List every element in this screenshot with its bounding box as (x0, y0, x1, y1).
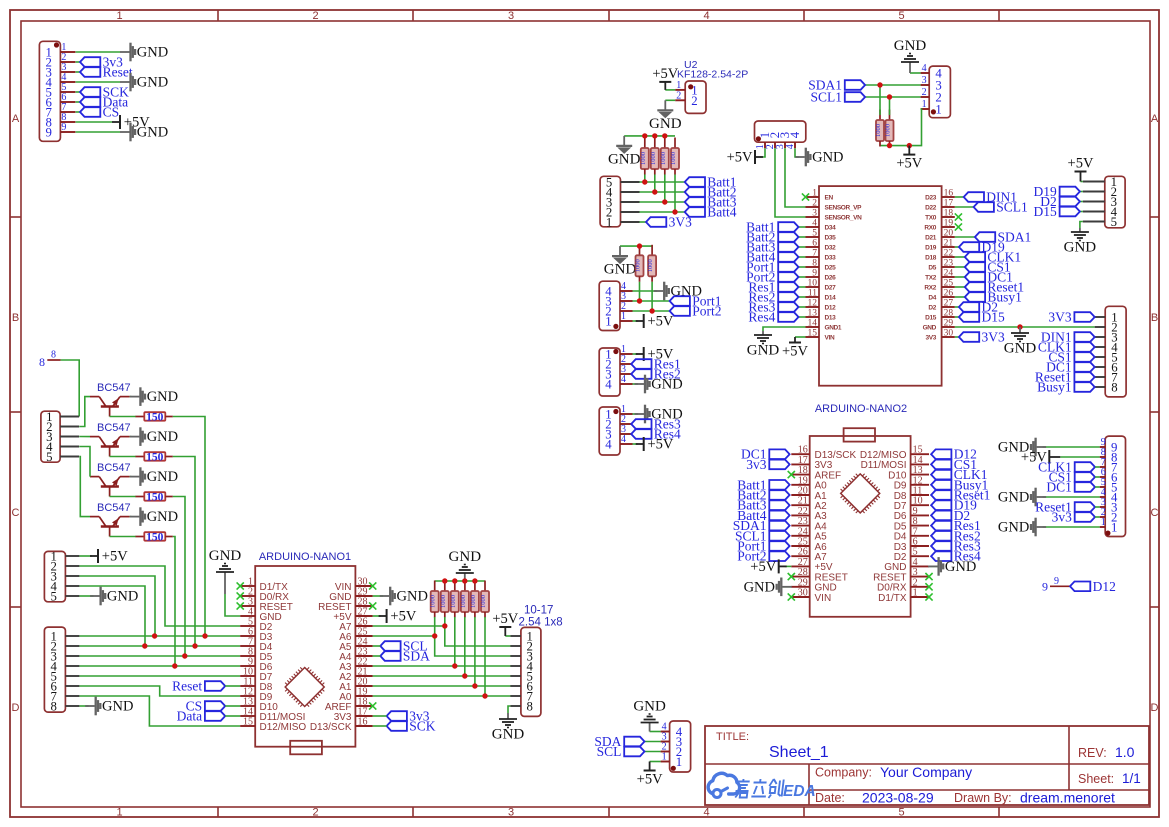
junction D6/R4 (172, 663, 177, 668)
port pin 9 (1042, 576, 1070, 594)
svg-text:4: 4 (788, 131, 802, 138)
svg-text:Your Company: Your Company (880, 764, 972, 780)
net flag Reset (80, 65, 133, 80)
wire J11.4 to GND (795, 148, 799, 157)
wire J13.2 to D19 (1080, 191, 1083, 193)
svg-text:BC547: BC547 (97, 422, 131, 434)
wire U1 D5 to CS1 (955, 266, 965, 268)
+5V at J6.1 (637, 762, 663, 788)
connector J8 4-pin header (599, 281, 632, 331)
svg-text:+5V: +5V (648, 314, 674, 330)
svg-text:BC547: BC547 (97, 502, 131, 514)
resistor RN4-2 1000 (885, 110, 894, 147)
connector J4 8-pin header (44, 627, 79, 714)
net flag DC1 (741, 447, 790, 462)
svg-text:2: 2 (676, 90, 681, 101)
svg-text:GND: GND (651, 377, 682, 393)
svg-text:SENSOR_VN: SENSOR_VN (825, 215, 863, 222)
svg-text:+5V: +5V (1068, 156, 1094, 172)
net flag Res2 (631, 367, 681, 382)
svg-text:C: C (12, 507, 20, 519)
svg-text:GND: GND (147, 389, 178, 405)
svg-text:24: 24 (944, 269, 954, 279)
JLC EDA logo (708, 773, 816, 800)
svg-text:D25: D25 (825, 265, 837, 272)
svg-text:15: 15 (243, 717, 253, 728)
net flag Port2 (737, 549, 789, 564)
wire J4.8 to GND (79, 705, 88, 707)
svg-text:D15: D15 (982, 310, 1005, 325)
wire Data flag to NANO1 D11 (225, 715, 240, 717)
wire J11.2 to SENSOR_VN (775, 148, 806, 217)
svg-text:1: 1 (913, 588, 918, 599)
no-connect X U1 TX0 (955, 213, 962, 220)
svg-text:+5V: +5V (896, 156, 922, 172)
svg-text:2: 2 (312, 10, 318, 22)
resistor RN4-1 1000 (875, 110, 884, 147)
svg-text:150: 150 (146, 491, 164, 503)
svg-text:16: 16 (358, 717, 368, 728)
svg-text:D19: D19 (925, 245, 937, 252)
ground at J4.8 (85, 697, 133, 716)
wire Q2 emitter to GND (130, 436, 132, 438)
wire RN3 top bus (620, 245, 652, 247)
wire J6.3 to SDA flag (645, 741, 661, 743)
svg-text:BC547: BC547 (97, 462, 131, 474)
ground at RN2 bus (608, 136, 641, 168)
wire NANO1 A5 to SCL (373, 645, 381, 647)
wire J6.4 to GND (650, 731, 661, 733)
wire NANO1 A4 to SDA (373, 655, 381, 657)
svg-text:5: 5 (898, 10, 904, 22)
connector J10 4-pin header (599, 404, 632, 455)
svg-text:SCL1: SCL1 (810, 90, 842, 105)
net flag Reset1 (965, 280, 1024, 295)
wire U1 D18 to CLK1 (955, 256, 965, 258)
connector J1 9-pin header (39, 41, 75, 141)
wire J4.2 to NANO1 D4 (79, 645, 240, 647)
net flag Res3 (931, 539, 981, 554)
resistor R2 150 (135, 451, 173, 463)
+5V at J13.1 (1068, 156, 1094, 182)
net flag SCL (597, 744, 645, 759)
wire Q3 emitter to GND (130, 476, 132, 478)
ground at J15.1 (998, 518, 1046, 537)
svg-text:2: 2 (922, 87, 927, 98)
wire NANO2 +5V (785, 565, 792, 567)
svg-text:2: 2 (812, 199, 817, 209)
wire J11.3 to SENSOR_VP (785, 148, 806, 207)
svg-text:4: 4 (812, 219, 817, 229)
net flag Batt4 (685, 205, 737, 220)
wire J12.4 to GND (910, 72, 921, 74)
wire J9.4 to GND (633, 383, 639, 385)
ground at U1 GND1 (747, 331, 780, 359)
svg-text:+5V: +5V (782, 344, 808, 360)
no-connect X NANO1.28 (369, 602, 376, 609)
net flag D19 (931, 498, 977, 513)
wire J4.3 to NANO1 D5 (79, 655, 240, 657)
net flag Batt2 (737, 488, 789, 503)
ground at J6.4 (633, 699, 666, 732)
wire RN4-1 to SDA1 net (879, 85, 881, 115)
svg-text:1: 1 (605, 315, 611, 329)
junction RN2 bus (652, 133, 657, 138)
wire R4 to D6 net (173, 537, 175, 667)
svg-text:26: 26 (944, 289, 954, 299)
junction top bus (472, 578, 477, 583)
svg-text:10: 10 (808, 279, 818, 289)
wire J2.5 to Q4 base (79, 457, 90, 517)
svg-text:D22: D22 (925, 205, 937, 212)
ground at J1.9 (120, 123, 168, 142)
junction RN2 bus (662, 133, 667, 138)
svg-text:Sheet:: Sheet: (1078, 772, 1114, 786)
svg-text:D32: D32 (825, 245, 837, 252)
svg-text:BC547: BC547 (97, 382, 131, 394)
svg-text:3V3: 3V3 (1048, 310, 1071, 325)
svg-text:8: 8 (1111, 381, 1117, 395)
svg-text:3V3: 3V3 (982, 330, 1005, 345)
net flag Batt2 (685, 185, 737, 200)
net flag DC1 (1046, 360, 1095, 375)
no-connect X U1 RX0 (955, 223, 962, 230)
wire Port2 to U1 (799, 276, 806, 278)
net flag CLK1 (931, 467, 987, 482)
wire J1.8 to +5V (76, 121, 112, 123)
svg-text:D18: D18 (925, 255, 937, 262)
wire J12.2 to SCL1 (865, 96, 921, 98)
svg-text:4: 4 (621, 374, 626, 385)
svg-text:3: 3 (508, 807, 514, 819)
junction top bus (442, 578, 447, 583)
junction D5/R3 (182, 653, 187, 658)
svg-text:1000: 1000 (480, 595, 487, 608)
junction Batt2 (652, 189, 657, 194)
svg-text:1000: 1000 (670, 152, 677, 165)
svg-text:15: 15 (808, 329, 818, 339)
svg-text:+5V: +5V (727, 150, 753, 166)
wire RN6 to A0 net (484, 617, 486, 696)
svg-text:DC1: DC1 (1046, 480, 1072, 495)
net flag SDA (594, 734, 644, 749)
connector J7 5-pin header (600, 176, 639, 230)
svg-text:25: 25 (944, 279, 954, 289)
wire U2.1 to +5V (665, 89, 675, 91)
wire NANO1 D13 to SCK flag (373, 725, 387, 727)
svg-text:19: 19 (944, 219, 954, 229)
svg-text:D4: D4 (928, 295, 936, 302)
wire J12.1 +5V bus (880, 109, 922, 146)
wire J1.2 to 3v3 flag (76, 61, 80, 63)
svg-text:1000: 1000 (440, 595, 447, 608)
net flag 3v3 (80, 55, 123, 70)
title block (705, 726, 1149, 806)
svg-text:1000: 1000 (470, 595, 477, 608)
wire J4.1 to NANO1 D3 (79, 635, 240, 637)
+5V at NANO2.27 (750, 559, 786, 575)
ground at Q1 emitter (130, 387, 178, 406)
svg-text:GND: GND (137, 45, 168, 61)
svg-text:1: 1 (116, 807, 122, 819)
wire J15.5 (1095, 486, 1100, 488)
resistor RN4 1000 (460, 581, 469, 618)
resistor R4 150 (135, 531, 173, 543)
wire U1 GND1 (763, 327, 806, 331)
junction D3/R1 (202, 633, 207, 638)
svg-text:GND: GND (604, 262, 637, 278)
no-connect X U1 EN (802, 193, 809, 200)
wire U1 D23 to DIN1 (955, 196, 964, 198)
net flag SDA1 (733, 518, 790, 533)
svg-text:1: 1 (606, 216, 612, 230)
junction RN3 bus (637, 243, 642, 248)
svg-text:GND: GND (812, 150, 843, 166)
net flag CS1 (1048, 350, 1094, 365)
net flag Port2 (746, 270, 798, 285)
junction Batt1 (642, 179, 647, 184)
junction RN2 bus (642, 133, 647, 138)
transistor Q2 BC547 (90, 422, 131, 456)
svg-text:RX2: RX2 (924, 285, 936, 292)
wire J1.4 to GND (76, 81, 120, 83)
net flag Res3 (631, 417, 681, 432)
svg-text:8: 8 (51, 350, 56, 361)
net flag SCL1 (735, 528, 790, 543)
net flag DC1 (1046, 480, 1095, 495)
svg-text:4: 4 (922, 63, 927, 74)
transistor Q4 BC547 (90, 502, 131, 536)
+5V at J9.1 (636, 347, 674, 363)
ground on GND net (1004, 327, 1037, 357)
ground at NANO1.4 (209, 548, 242, 594)
svg-text:4: 4 (703, 10, 709, 22)
ground at J13.5 (1064, 228, 1097, 256)
net flag SDA1 (808, 78, 865, 93)
wire J1.3 to Reset flag (76, 71, 80, 73)
wire J4.6 to NANO1 D9 (79, 686, 240, 696)
wire J8.1 to +5V (633, 320, 638, 322)
svg-text:21: 21 (944, 239, 954, 249)
wire U1 D4 to Busy1 (955, 296, 965, 298)
net flag SDA1 (975, 230, 1031, 245)
junction SCL1 (887, 94, 892, 99)
junction top bus (462, 578, 467, 583)
connector J2 5-pin header (41, 410, 79, 464)
wire Reset flag to NANO1 D8 (225, 685, 240, 687)
junction Batt3 (662, 199, 667, 204)
wire J15.6 (1095, 476, 1100, 478)
ground at J12.4 (894, 38, 927, 73)
wire J3.1 to +5V (79, 555, 92, 557)
svg-text:D: D (12, 702, 20, 714)
svg-text:5: 5 (898, 807, 904, 819)
svg-text:B: B (12, 312, 19, 324)
svg-text:20: 20 (944, 229, 954, 239)
net flag SCK (387, 719, 436, 734)
svg-text:1: 1 (116, 10, 122, 22)
port pin 8 (39, 350, 61, 370)
svg-text:Data: Data (177, 709, 202, 724)
ground at NANO2.29 (744, 578, 792, 597)
wire J13.5 to GND (1080, 222, 1083, 229)
junction A3/RN3 (452, 663, 457, 668)
net flag D19 (1034, 184, 1080, 199)
wire U1 RX2 to Reset1 (955, 286, 965, 288)
connector J14 8-pin header (1095, 306, 1126, 397)
wire NANO1 A6 (373, 635, 435, 637)
wire RN2 to J5.2 (445, 617, 511, 646)
wire RN5 to A1 net (474, 617, 476, 686)
wire J6.1 to +5V (650, 761, 661, 763)
net flag Res3 (748, 300, 798, 315)
svg-text:3V3: 3V3 (925, 335, 936, 342)
no-connect X NANO2.2 (925, 583, 932, 590)
svg-text:+5V: +5V (637, 772, 663, 788)
svg-text:GND: GND (137, 125, 168, 141)
net flag Batt3 (746, 240, 798, 255)
junction top bus (452, 578, 457, 583)
wire J4.7 to NANO1 D12/MISO (79, 696, 240, 726)
ground at NANO1.29 (380, 587, 428, 606)
IC U1 ESP32 module (806, 186, 955, 386)
wire J4.5 to NANO1 D7 (79, 675, 240, 677)
wire RN4 to A2 net (464, 617, 466, 676)
net flag Res4 (931, 549, 981, 564)
wire U1 D2 flag (955, 306, 959, 308)
svg-text:1000: 1000 (885, 124, 892, 137)
net flag SCL (380, 639, 427, 654)
wire resistor pack top bus (435, 580, 485, 582)
svg-text:2.54 1x8: 2.54 1x8 (519, 617, 563, 629)
svg-text:2: 2 (312, 807, 318, 819)
svg-text:9: 9 (61, 122, 66, 133)
svg-text:4: 4 (621, 434, 626, 445)
wire Q1 collector to R1 (110, 416, 136, 418)
wire J3.4 to D4 net (79, 586, 145, 646)
svg-text:RX0: RX0 (924, 225, 936, 232)
svg-text:6: 6 (812, 239, 817, 249)
svg-text:EN: EN (825, 195, 834, 202)
svg-text:KF128-2.54-2P: KF128-2.54-2P (677, 69, 748, 81)
svg-text:1: 1 (812, 189, 817, 199)
svg-text:1000: 1000 (635, 259, 642, 272)
svg-text:GND: GND (147, 469, 178, 485)
net flag Busy1 (1037, 380, 1095, 395)
wire RN3 to A3 net (454, 617, 456, 666)
resistor RN3 1000 (450, 581, 459, 618)
svg-text:5: 5 (50, 590, 56, 604)
svg-text:1: 1 (676, 755, 682, 769)
svg-text:5: 5 (46, 450, 52, 464)
svg-text:1000: 1000 (640, 152, 647, 165)
svg-text:D1/TX: D1/TX (878, 593, 907, 604)
transistor Q3 BC547 (90, 462, 131, 496)
net flag Batt1 (746, 220, 798, 235)
svg-text:+5V: +5V (652, 66, 678, 82)
wire Q1 emitter to GND (130, 396, 132, 398)
svg-text:8: 8 (50, 700, 56, 714)
wire J5.8 to GND (508, 706, 510, 713)
svg-text:SDA: SDA (403, 649, 430, 664)
resistor RN6 1000 (480, 581, 489, 618)
svg-text:GND: GND (449, 549, 482, 565)
resistor RN2 1000 (440, 581, 449, 618)
wire J6.2 to SCL flag (645, 751, 661, 753)
wire J10.2 to Res3 (631, 423, 632, 425)
svg-text:9: 9 (812, 269, 817, 279)
svg-text:D34: D34 (825, 225, 837, 232)
resistor RN3-1 1000 (635, 245, 644, 282)
net flag Batt3 (685, 195, 737, 210)
ground at J5.8 (492, 713, 525, 743)
junction GND net (1017, 324, 1022, 329)
wire J1.9 to GND (76, 131, 120, 133)
+5V at J5.1 (492, 611, 518, 636)
svg-text:VIN: VIN (825, 335, 835, 342)
net flag Port1 (670, 294, 722, 309)
net flag D12 (931, 447, 977, 462)
svg-text:GND: GND (102, 699, 133, 715)
net flag Reset1 (1035, 370, 1095, 385)
wire RN2-3 to Batt3 net (664, 175, 666, 203)
no-connect X NANO1.30 (369, 582, 376, 589)
svg-text:B: B (1151, 312, 1158, 324)
svg-text:D14: D14 (825, 295, 837, 302)
resistor R1 150 (135, 411, 173, 423)
svg-text:GND: GND (147, 509, 178, 525)
svg-text:D35: D35 (825, 235, 837, 242)
net flag DC1 (965, 270, 1013, 285)
junction A6/RN1 (432, 633, 437, 638)
wire Res2 to U1 (799, 296, 806, 298)
ground at J8.4 (654, 282, 702, 301)
svg-text:ARDUINO-NANO1: ARDUINO-NANO1 (259, 551, 351, 563)
ground above resistor pack (449, 549, 482, 581)
wire RN2-4 to Batt4 net (674, 175, 676, 213)
wire Res1 to U1 (799, 286, 806, 288)
net flag CLK1 (1038, 340, 1095, 355)
wire Q4 emitter to GND (130, 516, 132, 518)
svg-text:GND: GND (923, 325, 937, 332)
wire Res4 to U1 (799, 316, 806, 318)
wire U1 D19 flag (955, 246, 959, 248)
svg-text:5: 5 (812, 229, 817, 239)
svg-text:Reset: Reset (103, 65, 133, 80)
net flag Busy1 (931, 477, 988, 492)
svg-text:SCL: SCL (597, 744, 622, 759)
net flag CS1 (1049, 470, 1095, 485)
wire J8.3 to Port1 (633, 300, 670, 302)
wire U1 GND to J14.2 (955, 326, 1095, 328)
wire J13.4 to D15 (1080, 211, 1083, 213)
ground at Q3 emitter (130, 467, 178, 486)
wire NANO1 A1 to J5.6 (373, 685, 511, 687)
net flag Port1 (737, 539, 789, 554)
wire NANO1 3V3 to 3v3 flag (373, 715, 387, 717)
ground at J1.4 (120, 73, 168, 92)
wire J2.4 to Q3 base (79, 447, 90, 477)
svg-text:GND: GND (608, 151, 641, 167)
junction D4/J3.4 (142, 643, 147, 648)
+5V at J10.4 (636, 437, 674, 453)
svg-text:D13/SCK: D13/SCK (310, 722, 352, 733)
junction A1/RN5 (472, 683, 477, 688)
svg-text:D5: D5 (928, 265, 936, 272)
net flag D2 (931, 508, 970, 523)
wire J13.3 to D2 (1080, 201, 1083, 203)
wire J4.4 to NANO1 D6 (79, 665, 240, 667)
